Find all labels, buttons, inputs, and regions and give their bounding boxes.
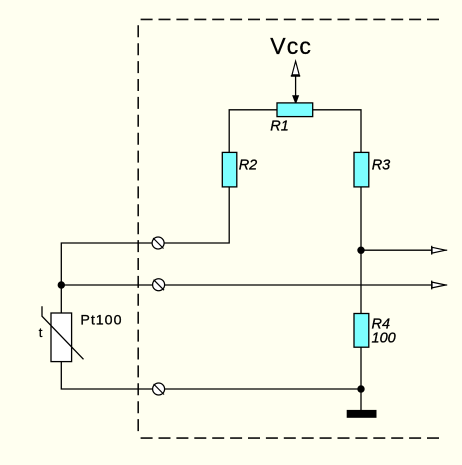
dashed boundary box <box>138 19 439 438</box>
svg-text:R1: R1 <box>270 118 289 134</box>
svg-text:Pt100: Pt100 <box>80 312 122 328</box>
resistor R1 <box>277 103 313 117</box>
resistor R4 <box>354 314 369 348</box>
svg-text:100: 100 <box>372 331 396 347</box>
wire R1 left to left branch <box>229 110 277 153</box>
ground stub wire <box>360 389 362 410</box>
terminal T1 <box>152 237 164 249</box>
wire sense line from node A to output 2 <box>61 284 431 286</box>
wire R1 right to right branch <box>313 110 361 153</box>
output arrow 2 <box>432 281 448 290</box>
svg-text:t: t <box>39 325 43 340</box>
wire Pt100 bottom to ground line <box>61 362 361 389</box>
Vcc power arrow symbol <box>291 61 300 96</box>
resistor R2 <box>222 152 237 187</box>
wiper arrow into R1 <box>292 95 299 104</box>
resistor R3 <box>354 152 369 187</box>
wire R4 bottom to ground node <box>360 347 362 389</box>
thermistor diagonal stroke <box>42 306 84 359</box>
svg-text:R2: R2 <box>239 157 258 173</box>
output arrow 1 <box>432 246 448 255</box>
svg-text:Vcc: Vcc <box>270 33 312 59</box>
junction dot node A <box>58 281 65 288</box>
wire R2 bottom to terminal T1 and Pt100 top <box>61 187 229 313</box>
junction dot node C <box>357 385 364 392</box>
junction dot node B <box>357 247 364 254</box>
wire sense line from node B to output 1 <box>361 249 432 251</box>
wire R3 bottom down to R4 <box>360 187 362 314</box>
terminal T2 <box>153 279 165 291</box>
svg-text:R3: R3 <box>372 157 391 173</box>
terminal T3 <box>153 383 165 395</box>
thermistor Pt100 body <box>51 313 72 362</box>
ground <box>347 410 377 418</box>
